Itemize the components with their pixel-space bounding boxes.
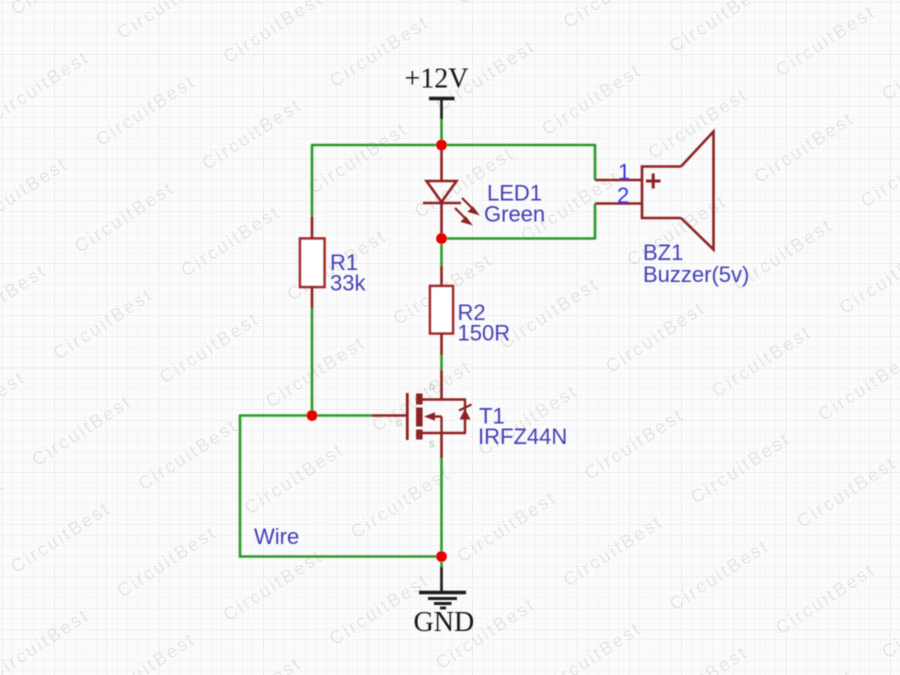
transistor T1 MOSFET xyxy=(372,370,567,458)
resistor R1 xyxy=(300,217,366,309)
wire mid horizontal from LED cathode to buzzer branch xyxy=(442,237,596,240)
node C junction gate xyxy=(307,410,318,421)
svg-text:1: 1 xyxy=(618,160,630,185)
wire LED cathode node down to R2 xyxy=(440,239,443,268)
wire bottom horizontal xyxy=(239,555,442,558)
svg-text:+12V: +12V xyxy=(405,64,469,95)
wire gate horizontal xyxy=(240,414,372,417)
svg-text:Wire: Wire xyxy=(254,524,299,549)
svg-text:2: 2 xyxy=(617,183,629,208)
plus sign xyxy=(646,180,661,183)
ground xyxy=(414,567,475,638)
pin 1 wire xyxy=(595,179,643,182)
wire R1 bottom to gate node xyxy=(311,307,314,416)
svg-text:Green: Green xyxy=(484,202,545,227)
svg-text:Buzzer(5v): Buzzer(5v) xyxy=(643,262,749,287)
svg-text:GND: GND xyxy=(414,607,475,638)
wire gnd stub xyxy=(440,557,443,569)
buzzer BZ1 xyxy=(595,132,749,288)
wire right drop to buzzer pin 1 xyxy=(594,145,597,180)
wire from +12V to node A xyxy=(440,119,443,146)
resistor R2 xyxy=(430,266,510,355)
svg-text:33k: 33k xyxy=(330,271,366,296)
svg-text:D: D xyxy=(429,383,435,392)
svg-text:S: S xyxy=(429,440,434,449)
pin 2 wire xyxy=(595,202,643,205)
svg-text:G: G xyxy=(396,419,402,428)
node A junction top xyxy=(436,140,447,151)
svg-text:IRFZ44N: IRFZ44N xyxy=(478,424,567,449)
node D junction ground xyxy=(436,551,447,562)
wire mosfet source down xyxy=(440,457,443,557)
node B junction LED cathode xyxy=(436,233,447,244)
wire R1 top (node A to R1) xyxy=(311,145,314,217)
wire top horizontal bus y=145 xyxy=(311,144,596,147)
wire R2 to mosfet drain xyxy=(440,354,443,370)
wire right rise to buzzer pin 2 xyxy=(594,204,597,240)
LED LED1 xyxy=(423,145,545,239)
body xyxy=(642,132,714,250)
power symbol +12V xyxy=(405,64,469,120)
wire left vertical xyxy=(239,415,242,558)
svg-text:150R: 150R xyxy=(458,321,511,346)
